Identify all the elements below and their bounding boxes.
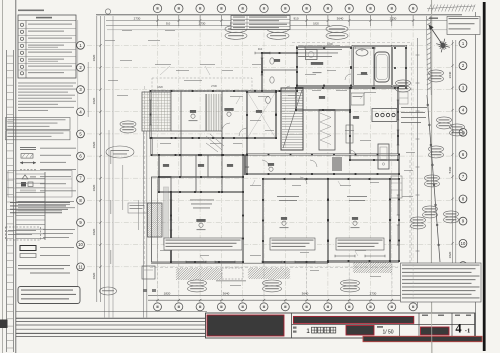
- window tag 14: [188, 280, 207, 286]
- entrance canopy dashed: [152, 78, 252, 91]
- legend dashed box: [6, 227, 41, 240]
- west site boundary ladder: [7, 50, 14, 352]
- right dimension chain: [451, 40, 456, 300]
- top-right fence hatch: [427, 5, 475, 12]
- svg-text:910: 910: [166, 21, 171, 25]
- right grid circles 1-11: [459, 40, 467, 292]
- legend note box 1: [6, 118, 71, 130]
- bottom mid tiny note: [216, 280, 246, 281]
- legend symbol rows: [20, 147, 36, 149]
- south wall lines: [151, 262, 328, 264]
- genkan mat hatch: [207, 94, 222, 131]
- window tag 16: [341, 280, 360, 286]
- top frame line: [96, 14, 462, 16]
- window tag 11: [423, 206, 438, 212]
- east slanted boundary: [427, 95, 440, 262]
- driveway lines: [143, 131, 145, 318]
- mid rooms block: [296, 88, 350, 110]
- approach note box: [128, 203, 147, 213]
- genkan hall block: [151, 91, 277, 138]
- redacted bar big left: [207, 315, 284, 336]
- svg-text:2730: 2730: [370, 291, 377, 295]
- label toilet: [274, 59, 280, 62]
- right heavy black border: [483, 2, 486, 351]
- legend header text: [18, 10, 44, 12]
- left grid circles 1-11: [77, 41, 85, 270]
- left scan edge line: [2, 0, 4, 353]
- tokonoma hatch block: [148, 203, 163, 237]
- serving counter: [346, 125, 353, 143]
- bottom grid circles kana: [154, 303, 418, 311]
- eaves overhang dashed: [145, 43, 413, 268]
- svg-text:1/ 50: 1/ 50: [382, 330, 393, 336]
- svg-text:-1: -1: [465, 328, 470, 335]
- spec texts washitsu: [190, 199, 214, 202]
- label nando: [256, 110, 262, 113]
- svg-text:2730: 2730: [199, 21, 206, 25]
- label hall1: [224, 108, 233, 111]
- pantry: [319, 110, 335, 150]
- washer box: [306, 50, 318, 60]
- bath block: [353, 46, 392, 86]
- utility dashed line east: [409, 160, 411, 300]
- label genkan: [190, 110, 196, 113]
- title block frame: [206, 313, 476, 338]
- svg-text:1: 1: [306, 328, 310, 335]
- west inner dimension bundle: [105, 16, 113, 318]
- redacted bar mid: [346, 326, 374, 336]
- bathtub: [375, 52, 389, 82]
- large note box bottom-right: [401, 263, 482, 302]
- svg-text:1820: 1820: [92, 141, 96, 148]
- left margin line: [15, 0, 17, 353]
- left circles leader line: [77, 20, 79, 302]
- svg-text:910: 910: [258, 47, 263, 51]
- svg-text:2730: 2730: [211, 84, 217, 88]
- top-right note box: [447, 17, 480, 35]
- redacted bar right: [421, 327, 450, 335]
- top dimension chain: [106, 15, 460, 26]
- washroom block: [297, 47, 353, 86]
- legend table: [18, 15, 76, 78]
- note box washitsu: [164, 238, 242, 250]
- svg-text:3640: 3640: [302, 291, 309, 295]
- gas stove: [372, 109, 397, 122]
- spec texts ima: [277, 195, 299, 198]
- left dimension chain: [97, 16, 102, 302]
- redacted bar top: [293, 316, 413, 323]
- genkan step fan: [206, 136, 222, 150]
- svg-text:10: 10: [461, 241, 466, 246]
- right inner frame line: [475, 12, 477, 340]
- window tag 5: [429, 70, 444, 76]
- window tag 10: [411, 217, 426, 223]
- svg-text:1820: 1820: [92, 272, 96, 279]
- dark door jamb: [244, 155, 247, 175]
- north-east fence ladder: [427, 16, 432, 95]
- north arrow: [429, 25, 450, 52]
- scattered annotations: [105, 30, 415, 286]
- entrance porch tile grid: [142, 92, 171, 131]
- svg-text:1820: 1820: [92, 228, 96, 235]
- window tag 4: [396, 80, 411, 86]
- road tag ellipse: [100, 287, 117, 295]
- east rotated labels: [398, 115, 399, 133]
- svg-text:1690: 1690: [327, 42, 333, 46]
- west outdoor steps: [16, 172, 45, 240]
- label ima: [281, 217, 287, 220]
- legend rows border: [8, 171, 72, 198]
- svg-text:1820: 1820: [313, 21, 319, 25]
- window tag 2: [267, 25, 289, 32]
- veranda hatch mid: [248, 268, 290, 279]
- step dashed box: [222, 268, 243, 279]
- bottom dimension chain: [148, 296, 414, 302]
- washroom spec note: [298, 45, 340, 48]
- toilet block: [262, 53, 297, 91]
- toilet fixtures: [270, 58, 274, 64]
- label kitchen: [353, 116, 359, 119]
- side room block: [392, 46, 406, 86]
- label corridor1: [268, 163, 274, 166]
- svg-text:910: 910: [293, 16, 298, 20]
- legend notes 2: [18, 200, 74, 203]
- structural posts: [150, 47, 407, 263]
- label butsuma: [163, 164, 169, 167]
- east service box: [391, 176, 402, 198]
- window tag 13: [120, 121, 136, 127]
- grid lines: [87, 14, 458, 302]
- washitsu1: [171, 192, 243, 262]
- road lines: [16, 312, 207, 337]
- svg-text:3640: 3640: [337, 16, 344, 20]
- projection lines to bottom dims: [158, 264, 414, 299]
- legend rect symbol rows: [20, 246, 36, 251]
- title block inner lines: [291, 313, 293, 338]
- nando cross: [248, 93, 275, 137]
- redacted long bottom bar: [363, 336, 482, 341]
- svg-text:3640: 3640: [223, 291, 230, 295]
- corridor west block: [152, 138, 248, 155]
- svg-text:1820: 1820: [92, 54, 96, 61]
- svg-text:4: 4: [455, 322, 462, 336]
- svg-text:5460: 5460: [448, 166, 452, 173]
- top-center table: [231, 16, 290, 30]
- approach tag ellipse: [106, 146, 134, 158]
- veranda hatch west: [176, 268, 222, 280]
- window tag 6: [437, 117, 452, 123]
- spec texts dining: [347, 195, 367, 198]
- svg-text:910: 910: [245, 165, 250, 169]
- svg-text:1820: 1820: [448, 251, 452, 258]
- window tag 12: [444, 211, 459, 217]
- legend notes 3: [18, 265, 70, 266]
- label oshiire: [198, 164, 204, 167]
- nando block: [247, 92, 276, 138]
- kitchen block: [350, 88, 398, 160]
- right side notes: [401, 106, 427, 109]
- label bath: [361, 72, 367, 75]
- annotation leader lines: [160, 66, 365, 262]
- upper site line: [107, 29, 458, 31]
- window tag 8: [429, 146, 444, 152]
- window tag 9: [425, 175, 440, 181]
- stair storage dark: [332, 157, 342, 171]
- veranda hatch east: [353, 262, 392, 273]
- cupboard: [351, 93, 364, 105]
- left dark paragraph: [10, 202, 70, 203]
- west engawa: [152, 177, 172, 262]
- label dining: [352, 217, 358, 220]
- contact info rounded box: [18, 287, 80, 304]
- window tag 15: [263, 280, 282, 286]
- label washitsu1: [196, 219, 205, 222]
- svg-text:10: 10: [78, 242, 83, 247]
- label washroom: [311, 62, 323, 65]
- label mono: [319, 96, 325, 99]
- svg-text:11: 11: [78, 264, 83, 269]
- window symbols: [149, 47, 399, 264]
- dining room: [328, 179, 390, 261]
- toilet divider: [262, 69, 297, 71]
- fold line lower: [431, 305, 433, 353]
- outdoor tap box: [142, 266, 155, 279]
- title cell micro labels: [293, 327, 297, 329]
- rotated site label mid: [122, 165, 123, 210]
- svg-text:3640: 3640: [448, 71, 452, 78]
- window tag 1: [225, 25, 247, 32]
- living room: [263, 179, 328, 262]
- svg-text:1820: 1820: [157, 85, 163, 89]
- scan fold line: [430, 0, 433, 353]
- closet dividers: [180, 155, 182, 177]
- kitchen sink: [378, 144, 389, 169]
- back door steps: [399, 92, 408, 104]
- svg-text:1820: 1820: [164, 291, 171, 295]
- svg-text:2730: 2730: [134, 16, 141, 20]
- svg-text:2730: 2730: [390, 16, 397, 20]
- shutter box west: [164, 187, 169, 245]
- top grid circles kana: [105, 4, 417, 14]
- left edge black blob: [0, 320, 8, 329]
- rotated label washitsu west: [138, 200, 139, 230]
- label oshiire2: [227, 164, 233, 167]
- window tag 7: [450, 124, 465, 130]
- svg-text:1820: 1820: [92, 97, 96, 104]
- note box dining: [336, 238, 384, 250]
- bath divider: [373, 47, 375, 87]
- svg-text:1820: 1820: [92, 184, 96, 191]
- legend notes paragraph: [18, 82, 76, 85]
- corridor east block: [247, 155, 399, 175]
- rotated site label west: [88, 62, 89, 117]
- staircase: [281, 88, 303, 150]
- note box living: [270, 238, 315, 250]
- legend note box 2: [6, 131, 71, 140]
- east site boundary: [417, 38, 419, 308]
- closet band: [159, 177, 243, 192]
- window tag 3: [326, 25, 348, 32]
- east strip room: [390, 179, 399, 261]
- washbasin: [356, 49, 368, 56]
- butsuma band: [159, 155, 243, 177]
- door swing arcs: [222, 74, 356, 184]
- gate marks: [143, 289, 147, 292]
